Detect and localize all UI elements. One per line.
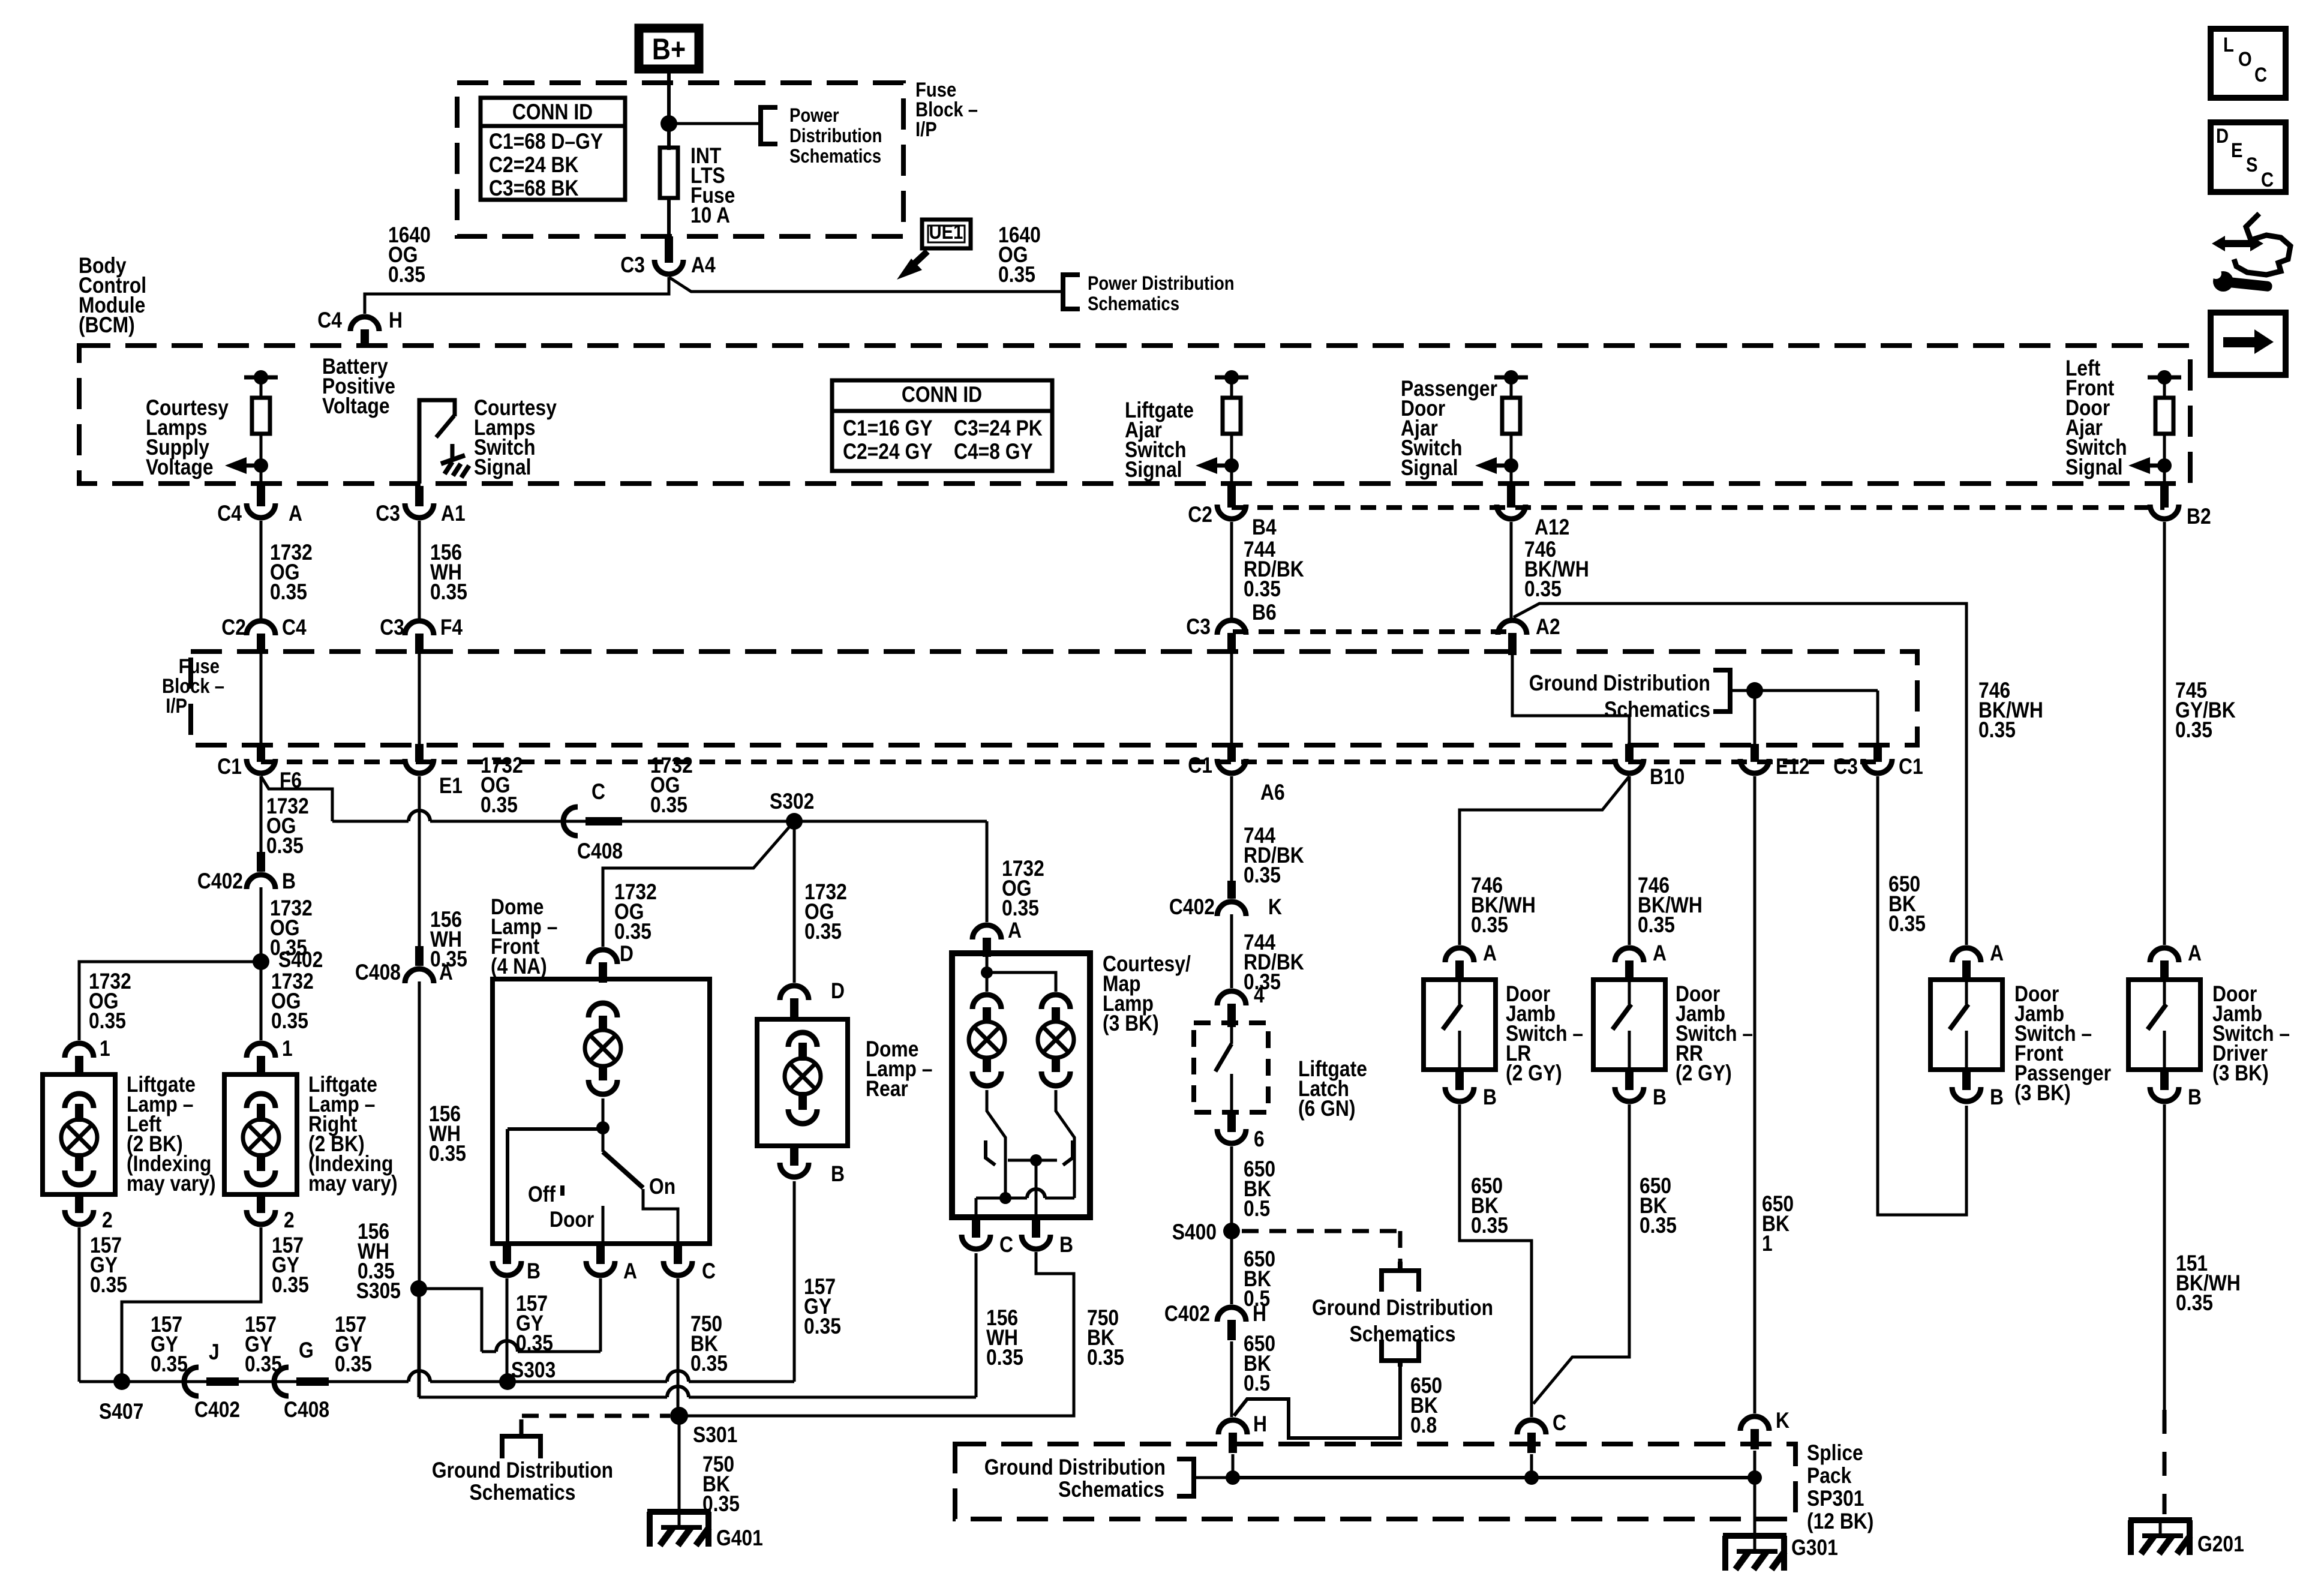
dome lamp front box [493,979,710,1244]
connector C402 pin J [184,1340,240,1422]
connector C2 pin C4 [221,615,307,654]
splice S305 [356,1278,427,1303]
label 746 BK/WH 0.35 (LR) [1471,873,1536,937]
wire A6 through fuse block [1230,654,1233,744]
connector C3 pin B6 [1186,614,1246,654]
svg-text:C: C [2261,169,2274,191]
label 1732 OG 0.35 (above S402) [270,896,313,960]
svg-text:0.35: 0.35 [89,1008,126,1033]
svg-text:(3 BK): (3 BK) [1103,1011,1159,1035]
label 157 GY 0.35 (lamp left) [90,1233,127,1297]
svg-text:UE1: UE1 [929,221,963,244]
svg-text:0.35: 0.35 [1978,718,2016,742]
connector pin C (dome front) [663,1244,716,1283]
wire A2 branch to front passenger jamb [1514,604,1966,945]
wire dome front B to S303 [506,1278,509,1382]
svg-text:C2=24 GY: C2=24 GY [843,439,933,464]
BCM courtesy lamps switch (internal) [419,400,469,484]
svg-text:C2=24 BK: C2=24 BK [489,152,579,177]
label 745 GY/BK 0.35 [2175,678,2236,742]
svg-text:0.35: 0.35 [429,1141,466,1166]
dashed wire S400 to ground callout [1242,1231,1400,1265]
svg-text:0.8: 0.8 [1410,1413,1437,1437]
svg-text:On: On [649,1174,675,1199]
courtesy map lamp box [952,953,1090,1217]
label Splice Pack SP301 [1807,1440,1873,1533]
label 1640 OG 0.35 (right) [998,223,1041,287]
svg-text:C402: C402 [194,1397,240,1422]
svg-text:0.35: 0.35 [1524,577,1562,601]
svg-text:I/P: I/P [166,695,187,718]
label On [649,1174,675,1199]
svg-text:A: A [1008,918,1022,942]
connector pin 2 (lamp right) [247,1194,295,1232]
wire 1732 OG C4A to C2C4 [260,521,263,619]
wire S402 to liftgate lamp right [260,962,263,1040]
svg-text:B+: B+ [652,32,686,66]
svg-text:0.5: 0.5 [1244,1196,1270,1221]
label 151 BK/WH 0.35 [2176,1251,2241,1315]
svg-text:A: A [289,501,302,526]
label 750 BK 0.35 (dome front C) [690,1311,728,1376]
svg-text:0.35: 0.35 [998,262,1035,287]
svg-text:Schematics: Schematics [470,1480,576,1505]
svg-text:Signal: Signal [1401,455,1458,480]
connector E12 [1740,744,1810,779]
label Passenger Door Ajar Switch Signal [1401,376,1497,480]
CONN ID table (BCM) [832,380,1052,471]
power node B+ [639,28,699,69]
dome lamp rear box [757,1019,848,1146]
connector pin A (map lamp) [972,925,1001,957]
wire lamp left to S407 [78,1227,81,1382]
svg-text:CONN ID: CONN ID [902,382,982,407]
svg-text:C1: C1 [1899,754,1923,779]
label 157 GY 0.35 (bus 3) [335,1312,372,1376]
connector H (ground header) [1218,1412,1267,1453]
connector C3 pin A4 [620,236,716,277]
wire lamp right to S407 [122,1227,261,1382]
wire dome front A down [599,1278,602,1352]
svg-text:G301: G301 [1791,1535,1838,1560]
wire F6 to courtesy feed row [261,776,987,821]
svg-text:Ground Distribution: Ground Distribution [1312,1295,1493,1320]
BCM left front door ajar switch signal input [2128,370,2181,484]
connector C408 pin G [274,1338,329,1422]
connector C4 pin H [317,308,403,347]
svg-text:Schematics: Schematics [1604,697,1710,722]
svg-text:0.35: 0.35 [1471,912,1508,937]
connector C1 pin A6 [1188,744,1284,804]
map lamp switches [976,1090,1074,1217]
wire S302 to dome lamp rear D [793,821,796,983]
svg-text:0.35: 0.35 [1244,863,1281,887]
svg-text:I/P: I/P [915,118,937,141]
svg-text:0.35: 0.35 [1087,1345,1124,1370]
wire S301 to G401 [678,1416,681,1512]
liftgate latch box [1194,1023,1268,1112]
splice S303 [499,1358,556,1390]
svg-text:0.35: 0.35 [481,792,518,817]
label 744 RD/BK 0.35 (A6) [1244,823,1304,887]
label 746 BK/WH 0.35 (RR) [1638,873,1703,937]
connector C3 pin C1 [1833,744,1923,779]
BCM courtesy lamps supply voltage input [225,370,278,484]
wire B to S402 [260,887,263,962]
connector C408 pin C [563,779,623,863]
svg-text:E1: E1 [439,773,463,798]
svg-text:(BCM): (BCM) [79,313,135,337]
svg-text:B2: B2 [2187,504,2211,529]
wire B6 to A6 [1230,655,1233,744]
label Dome Lamp Rear [866,1037,932,1101]
svg-text:H: H [1253,1412,1267,1436]
svg-text:0.35: 0.35 [90,1272,127,1297]
svg-text:S407: S407 [99,1399,143,1424]
wire K to latch pin 4 [1230,914,1233,988]
svg-text:0.35: 0.35 [690,1351,728,1376]
label 650 BK 1 [1762,1191,1794,1256]
label 744 RD/BK 0.35 (K) [1244,930,1304,994]
connector pin D (dome front) [588,950,617,983]
wire 744 RDBK B4 to B6 [1230,522,1233,619]
connector pin B (dome front) [493,1244,541,1283]
label 156 WH 0.35 (below C408A) [429,1101,466,1166]
label 744 RD/BK 0.35 (B4) [1244,537,1304,601]
wire B10 to LR jamb A [1460,776,1629,945]
wire B+ to fuse block [667,69,671,150]
label D (dome rear) [831,978,845,1003]
connector C3 pin F4 [380,615,463,654]
wire driver jamb B to G201 [2163,1104,2166,1410]
body control module (BCM) box [79,346,2190,484]
svg-text:C3: C3 [1186,614,1211,639]
connector B (RR jamb) [1615,1070,1667,1109]
label Door Jamb Switch Front Passenger [2014,981,2111,1105]
svg-text:Voltage: Voltage [322,394,390,418]
label 750 BK 0.35 (G401) [702,1452,740,1516]
wire E1 to C408-A [418,776,421,946]
svg-text:Schematics: Schematics [1058,1477,1164,1502]
svg-text:C1=68 D–GY: C1=68 D–GY [489,129,603,154]
label Liftgate Lamp Left [127,1072,216,1196]
connector row dotted line (C2/A12/B2) [1232,505,2164,510]
map lamp internal feed [981,957,1056,992]
svg-text:C: C [591,779,605,804]
svg-text:C4: C4 [217,501,242,526]
label Left Front Door Ajar Switch Signal [2065,356,2127,479]
label 650 BK 0.8 [1410,1373,1442,1437]
connector E1 [405,744,463,798]
wire F4 through fuse block [418,653,421,744]
svg-text:1: 1 [100,1036,110,1061]
ground distribution box (bottom) [955,1444,1795,1519]
label Courtesy Map Lamp [1103,951,1191,1035]
label UE1 pointer box [922,220,971,248]
svg-text:F4: F4 [440,615,463,640]
label 157 GY 0.35 (bus 2) [245,1312,282,1376]
svg-text:C: C [702,1259,716,1283]
label Liftgate Ajar Switch Signal [1125,398,1194,482]
wire H to ground bus [1232,1454,1235,1478]
svg-text:A: A [1483,941,1497,965]
svg-text:Pack: Pack [1807,1463,1852,1488]
dashed wire to G201 [2163,1410,2167,1514]
svg-text:B10: B10 [1650,764,1685,789]
svg-text:S301: S301 [693,1422,737,1447]
wire S302 to courtesy map lamp A [986,821,989,922]
svg-text:Schematics: Schematics [1350,1322,1456,1346]
wire C408A to S305 [418,981,421,1397]
svg-text:Splice: Splice [1807,1440,1863,1465]
wire A2 to B10 jog [1512,655,1629,744]
callout bracket power distribution (top) [761,107,777,144]
label 650 BK 0.35 (LR) [1471,1173,1508,1238]
wire 157 GY bus [79,1371,794,1382]
svg-text:B: B [2188,1085,2202,1109]
CONN ID table (fuse block) [481,98,625,200]
connector pin B (map lamp) [1022,1217,1073,1257]
svg-text:A: A [1653,941,1667,965]
wire 156 WH A1 to F4 [418,521,421,619]
liftgate latch switch [1215,1027,1232,1112]
svg-text:A: A [439,960,453,984]
connector C408 pin A [355,946,453,984]
svg-text:C402: C402 [1164,1301,1210,1326]
label Door Jamb Switch Driver [2212,981,2290,1085]
svg-text:K: K [1268,894,1282,919]
svg-text:0.35: 0.35 [614,919,651,944]
wire 746 BKWH A12 to A2 [1510,522,1513,620]
label Body Control Module (BCM) [79,253,146,337]
connector C3 pin A1 [376,486,465,526]
wire 156 WH S305 to map lamp C [419,1253,976,1397]
label Liftgate Lamp Right [308,1072,398,1196]
svg-text:B: B [527,1259,541,1283]
svg-text:H: H [1253,1301,1266,1326]
ground bus [1226,1470,1762,1485]
label Courtesy Lamps Switch Signal [474,395,557,479]
svg-text:Off: Off [528,1182,556,1206]
svg-text:0.35: 0.35 [804,1314,841,1338]
label 750 BK 0.35 (map lamp B) [1087,1305,1124,1370]
svg-text:0.35: 0.35 [804,919,842,944]
svg-text:6: 6 [1254,1127,1265,1151]
svg-text:Signal: Signal [2065,455,2123,479]
svg-text:(2 GY): (2 GY) [1676,1061,1732,1085]
label 1732 OG 0.35 (dome front D) [614,879,657,944]
wire bus to dome rear B [793,1181,796,1382]
svg-text:A1: A1 [441,501,466,526]
connector B2 [2150,486,2211,529]
connector pin 1 (lamp left) [65,1036,110,1077]
svg-text:A6: A6 [1260,780,1285,804]
ground distribution callout (S301) [432,1419,613,1505]
connector C2 pin B4 [1188,486,1277,539]
connector pin 1 (lamp right) [247,1036,293,1077]
svg-text:C1=16 GY: C1=16 GY [843,416,933,440]
svg-text:L: L [2223,34,2234,56]
wire E12 to K [1753,776,1756,1413]
label 157 GY 0.35 (lamp right) [272,1233,309,1297]
svg-text:(4 NA): (4 NA) [491,954,547,978]
label A (map lamp) [1008,918,1022,942]
svg-text:Schematics: Schematics [789,145,881,167]
wire A6 to C402-K [1230,776,1233,881]
door jamb switch LR [1424,980,1496,1070]
wire ground callout to H [1234,1364,1400,1438]
label 1732 OG 0.35 (C4-A) [270,540,313,604]
connector pin 2 (lamp left) [65,1194,113,1232]
svg-text:S: S [2246,154,2258,176]
label Courtesy Lamps Supply Voltage [146,395,229,479]
svg-text:C1: C1 [217,754,242,779]
connector B10 [1615,744,1685,789]
svg-text:C2: C2 [221,615,246,640]
dome lamp front bulb [585,1003,621,1094]
svg-text:H: H [389,308,403,332]
ground distribution callout (fuse block) [1529,670,1878,744]
dome lamp front switch [508,1098,678,1244]
door jamb switch driver [2128,980,2200,1070]
icon next-arrow box [2211,313,2286,375]
svg-text:C3: C3 [380,615,404,640]
connector row dotted line (C3/A2) [1233,629,1512,634]
svg-text:C3: C3 [376,501,400,526]
svg-text:C: C [2254,64,2267,86]
wire B10 to RR jamb A [1628,776,1631,945]
svg-text:0.35: 0.35 [271,1008,308,1033]
svg-text:Signal: Signal [474,455,532,479]
label 156 WH 0.35 (A1) [430,540,467,604]
svg-text:0.35: 0.35 [266,833,304,858]
svg-text:(6 GN): (6 GN) [1298,1096,1356,1121]
label 156 WH 0.35 (above S305) [358,1219,395,1283]
splice S301 [670,1407,737,1447]
svg-text:0.35: 0.35 [1002,896,1039,920]
connector A2 [1498,614,1560,655]
ground distribution callout (bottom left) [984,1455,1233,1502]
connector pin B (dome rear) [780,1146,845,1186]
label 157 GY 0.35 (bus 1) [151,1312,188,1376]
wire C1 to front passenger jamb B [1878,776,1966,1215]
svg-text:CONN ID: CONN ID [512,100,593,124]
label 650 BK 0.5 (above S400) [1244,1157,1275,1221]
svg-text:0.35: 0.35 [151,1352,188,1376]
door jamb switch front passenger [1930,980,2002,1070]
label 1732 OG 0.35 (dome rear D) [804,879,847,944]
connector C (ground header) [1517,1410,1566,1453]
liftgate lamp left [43,1074,115,1194]
connector C4 pin A [217,486,302,526]
svg-text:0.35: 0.35 [270,580,307,604]
svg-text:Ground Distribution: Ground Distribution [984,1455,1166,1479]
label 1732 OG 0.35 (F6 drop) [266,794,309,858]
svg-text:B: B [282,869,296,893]
svg-text:B6: B6 [1252,600,1277,625]
label Battery Positive Voltage [322,354,395,418]
svg-text:0.35: 0.35 [272,1272,309,1297]
connector pin C (map lamp) [962,1217,1013,1257]
label B6 [1252,600,1277,625]
label Liftgate Latch [1298,1056,1367,1121]
wire C402H to H [1230,1341,1233,1417]
svg-text:C408: C408 [355,960,401,984]
svg-text:S402: S402 [278,947,323,972]
svg-text:A2: A2 [1536,614,1560,639]
label Off [528,1182,556,1206]
svg-text:D: D [831,978,845,1003]
svg-text:C2: C2 [1188,502,1212,527]
connector A (driver jamb) [2150,941,2202,981]
svg-text:0.35: 0.35 [1638,912,1675,937]
svg-text:1: 1 [282,1036,293,1061]
map lamp bulb right [1038,995,1074,1086]
svg-text:Power Distribution: Power Distribution [1088,272,1235,294]
connector B (LR jamb) [1445,1070,1497,1109]
svg-text:B: B [1059,1232,1073,1257]
label 746 BK/WH 0.35 (front passenger) [1978,678,2043,742]
label 1732 OG 0.35 (before S302) [650,753,693,817]
icon DESC box [2211,122,2286,192]
ground G201 [2128,1520,2244,1556]
svg-text:C3: C3 [1833,754,1858,779]
connector C402 pin B [197,852,296,893]
svg-text:C: C [999,1232,1013,1257]
svg-text:Power: Power [789,104,839,126]
svg-text:0.35: 0.35 [1888,911,1926,936]
wire 6 to S400 [1230,1146,1233,1304]
svg-text:0.5: 0.5 [1244,1371,1270,1395]
connector C402 pin K [1169,881,1282,919]
wire F6 to C402-B [260,776,263,852]
connector K (ground header) [1740,1408,1789,1449]
svg-text:0.35: 0.35 [430,580,467,604]
svg-text:0.35: 0.35 [650,792,687,817]
svg-text:G201: G201 [2197,1532,2244,1556]
label 156 WH 0.35 (E1) [430,907,467,971]
wire ground bus to G301 [1753,1478,1756,1536]
svg-text:10 A: 10 A [690,203,730,227]
svg-text:Schematics: Schematics [1088,293,1179,314]
svg-text:C408: C408 [284,1397,329,1422]
svg-text:Signal: Signal [1125,457,1182,482]
connector B (driver jamb) [2150,1070,2202,1109]
svg-text:1: 1 [1762,1231,1773,1256]
wire C to ground bus [1530,1454,1533,1478]
svg-text:G: G [299,1338,314,1362]
svg-text:may vary): may vary) [308,1171,398,1196]
BCM liftgate ajar switch signal input [1196,370,1248,484]
callout bracket power distribution (right) [1063,275,1080,309]
label Door Jamb Switch LR [1506,981,1583,1085]
svg-text:S305: S305 [356,1278,401,1303]
svg-text:0.35: 0.35 [335,1352,372,1376]
label Door Jamb Switch RR [1676,981,1753,1085]
dashed pointer to S301 [522,1414,670,1418]
map lamp bulb left [969,995,1005,1086]
svg-text:K: K [1776,1408,1789,1433]
svg-text:Voltage: Voltage [146,455,214,479]
label Power Distribution Schematics (top) [789,104,882,167]
svg-text:C3: C3 [620,253,645,277]
svg-text:C4: C4 [282,615,307,640]
wire S302 to dome lamp front D [603,821,794,947]
wire dome front C to S301 [677,1278,680,1416]
liftgate lamp right [224,1074,297,1194]
splice S400 [1172,1220,1240,1244]
svg-text:C3=68 BK: C3=68 BK [489,176,579,200]
